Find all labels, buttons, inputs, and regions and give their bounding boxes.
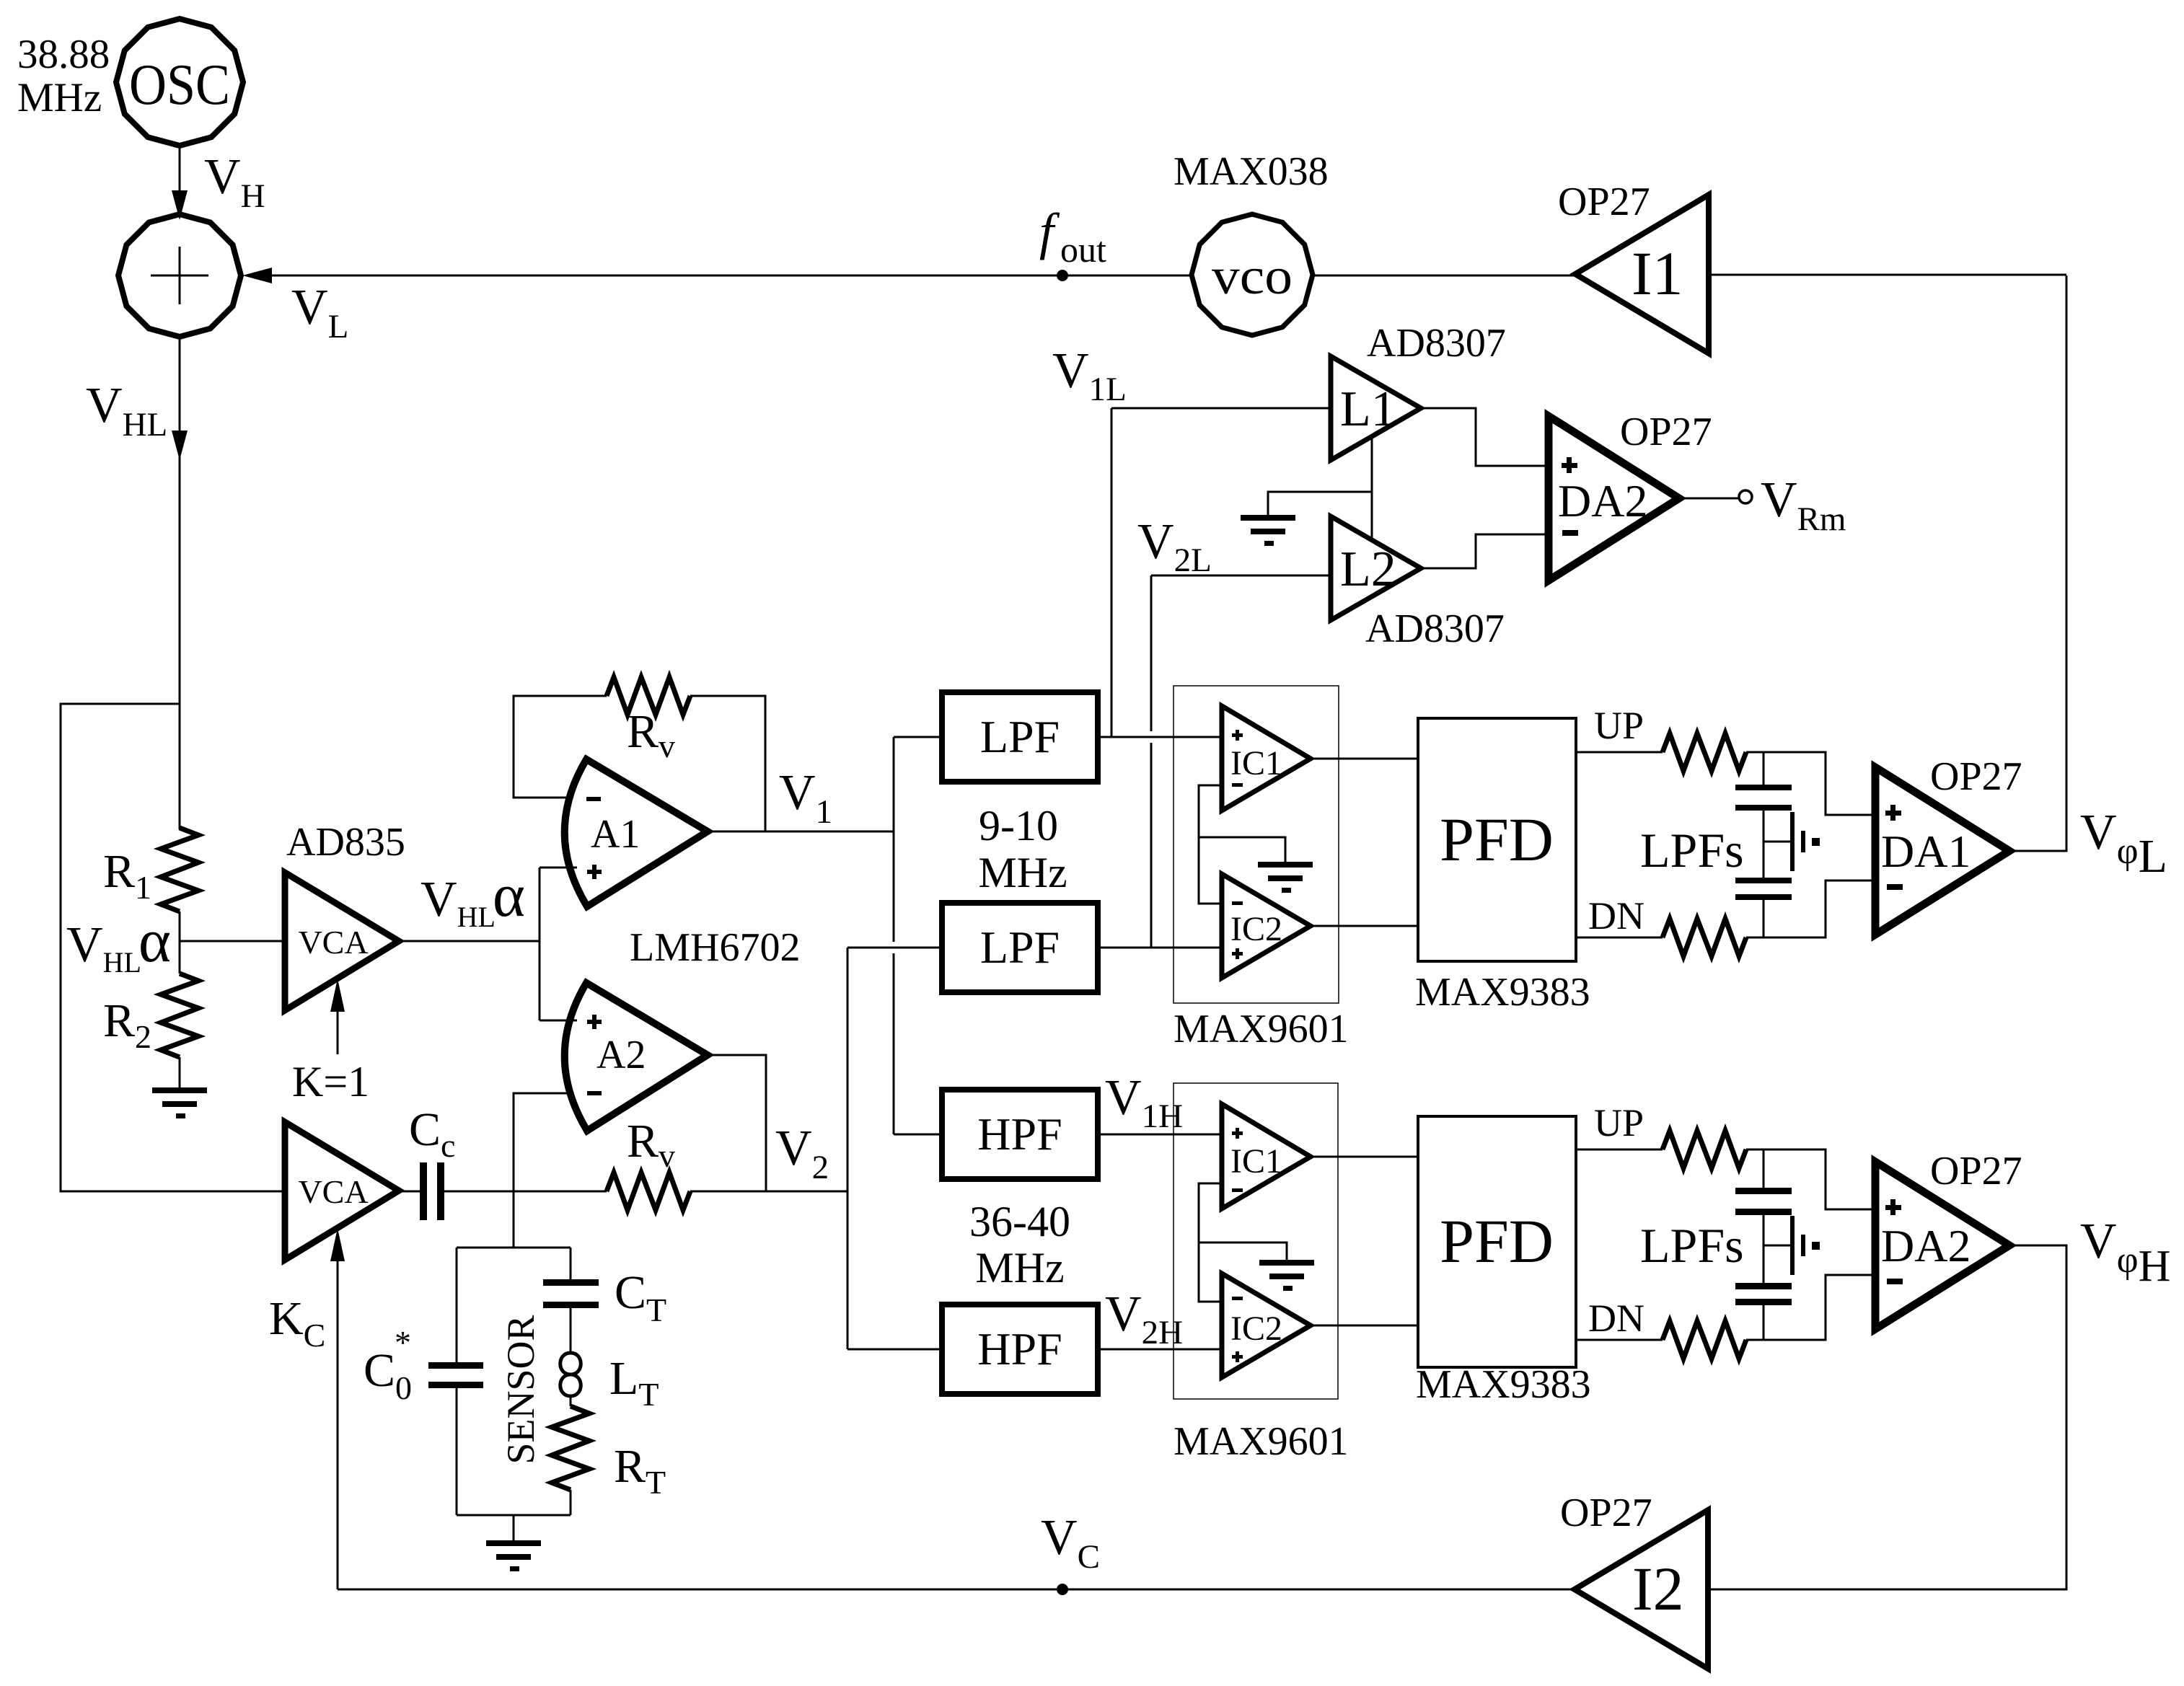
- wire L1 L2 reference: [1371, 438, 1373, 541]
- wire V1L to L1: [1111, 407, 1331, 410]
- capacitor C0*: [428, 1362, 483, 1388]
- svg-text:MAX9383: MAX9383: [1416, 1362, 1591, 1407]
- wire VCO to I1: [1313, 275, 1575, 277]
- wire IC2 output lower: [1311, 1325, 1418, 1327]
- svg-text:out: out: [1060, 229, 1106, 270]
- svg-text:MHz: MHz: [17, 75, 102, 120]
- filter HPF2: [942, 1305, 1098, 1394]
- wire DN upper: [1576, 937, 1663, 939]
- svg-text:UP: UP: [1594, 704, 1644, 747]
- resistor R1: [161, 828, 198, 912]
- svg-text:MHz: MHz: [978, 849, 1067, 896]
- svg-text:OP27: OP27: [1930, 754, 2022, 799]
- filter HPF1: [942, 1090, 1098, 1179]
- wire DN resistor to DA1: [1746, 880, 1875, 937]
- wire UP resistor to DA2: [1746, 1149, 1875, 1209]
- resistor Rv feedback A2: [607, 1173, 690, 1210]
- wire DA2 output: [1709, 1245, 2066, 1589]
- wire VCA2 to Cc: [399, 1191, 420, 1193]
- svg-text:A2: A2: [596, 1033, 646, 1077]
- reference bias lower: [1764, 1216, 1820, 1275]
- arrow VH: [172, 190, 188, 220]
- wire DN lower: [1576, 1339, 1663, 1341]
- wire VC return line: [338, 1589, 1574, 1591]
- svg-text:DA1: DA1: [1881, 826, 1971, 877]
- ground IC upper: [1258, 862, 1313, 893]
- inductor LT: [560, 1353, 581, 1396]
- svg-text:HPF: HPF: [977, 1323, 1062, 1374]
- inverter I1: [1575, 195, 1709, 353]
- wire VL from VCO to summing junction: [270, 275, 1192, 277]
- svg-text:AD835: AD835: [286, 820, 405, 865]
- svg-text:OP27: OP27: [1560, 1491, 1652, 1535]
- svg-text:LMH6702: LMH6702: [630, 925, 800, 970]
- block PFD upper: [1418, 718, 1576, 961]
- wire IC reference upper: [1199, 785, 1285, 904]
- svg-text:UP: UP: [1594, 1101, 1644, 1144]
- resistor DN lower: [1663, 1321, 1746, 1359]
- svg-text:MAX038: MAX038: [1174, 149, 1329, 194]
- filter LPF2: [942, 903, 1098, 992]
- wire R2 to ground: [179, 1057, 181, 1087]
- capacitor chain upper: [1735, 752, 1792, 937]
- wire Cc to Rv2: [444, 1191, 607, 1193]
- wire V2L tap: [1150, 575, 1153, 731]
- sensor loop wiring: [457, 1248, 571, 1540]
- wire A2 inverting input: [514, 1093, 572, 1191]
- comparator IC2 lower: [1222, 1274, 1311, 1377]
- capacitor chain lower: [1735, 1149, 1792, 1340]
- wire A1 output V1: [708, 831, 894, 833]
- wire VHL down to divider: [179, 337, 181, 829]
- ground L1 L2: [1241, 515, 1295, 546]
- oscillator VCO: [1192, 214, 1313, 335]
- arrow K=1 into VCA1: [337, 1009, 339, 1054]
- wire V2 to filters: [847, 948, 849, 1349]
- node fout junction dot: [1057, 270, 1068, 281]
- resistor UP upper: [1663, 733, 1746, 771]
- wire divider tap to VCA1: [179, 912, 181, 974]
- svg-text:LPFs: LPFs: [1640, 823, 1744, 878]
- wire V1L tap: [1111, 408, 1113, 737]
- svg-text:VCA: VCA: [298, 924, 368, 961]
- label 9-10 MHz: [978, 802, 1067, 896]
- svg-text:L1: L1: [1340, 381, 1396, 437]
- svg-text:9-10: 9-10: [979, 802, 1058, 849]
- svg-text:MAX9601: MAX9601: [1174, 1007, 1349, 1051]
- svg-text:OP27: OP27: [1930, 1149, 2022, 1193]
- svg-text:IC1: IC1: [1230, 1142, 1282, 1180]
- wire UP resistor to DA1: [1746, 752, 1875, 815]
- resistor R2: [161, 974, 198, 1057]
- svg-text:SENSOR: SENSOR: [499, 1315, 542, 1464]
- svg-text:L2: L2: [1340, 542, 1396, 597]
- comparator block MAX9601 lower: [1174, 1083, 1338, 1399]
- wire LPF1 output: [1098, 736, 1222, 738]
- label 38.88 MHz: [17, 32, 110, 120]
- svg-text:MHz: MHz: [975, 1244, 1064, 1292]
- svg-text:IC2: IC2: [1230, 1310, 1282, 1348]
- svg-text:A1: A1: [591, 812, 640, 857]
- arrow VL into summing junction: [242, 268, 272, 283]
- wire DN resistor to DA2: [1746, 1275, 1875, 1340]
- node VC junction dot: [1057, 1584, 1068, 1595]
- wire Rv2 to V2 node: [690, 1191, 847, 1193]
- oscillator OSC: [116, 19, 243, 146]
- wire A2 output: [708, 1055, 766, 1191]
- resistor RT: [552, 1406, 589, 1490]
- amplifier VCA1: [285, 873, 399, 1010]
- svg-text:VCA: VCA: [298, 1173, 368, 1210]
- svg-text:LPFs: LPFs: [1640, 1218, 1744, 1273]
- wire IC2 output upper: [1311, 925, 1418, 927]
- arrow KC into VCA2: [337, 1258, 339, 1589]
- wire DA1 output: [2009, 275, 2066, 851]
- wire HPF1 output: [1098, 1134, 1222, 1136]
- svg-text:OP27: OP27: [1620, 410, 1712, 454]
- wire L1 to DA2: [1421, 408, 1549, 466]
- wire UP lower: [1576, 1149, 1663, 1151]
- svg-text:IC1: IC1: [1230, 744, 1282, 782]
- terminal VRm: [1739, 490, 1752, 503]
- wire IC1 output lower: [1311, 1156, 1418, 1158]
- svg-text:AD8307: AD8307: [1367, 321, 1506, 366]
- op-amp DA2 upper: [1549, 416, 1679, 581]
- block PFD lower: [1418, 1116, 1576, 1367]
- resistor Rv feedback A1: [607, 677, 690, 715]
- svg-text:OP27: OP27: [1558, 180, 1650, 224]
- wire A1 inverting input: [514, 696, 607, 798]
- svg-text:IC2: IC2: [1230, 910, 1282, 948]
- arrow VHL: [172, 431, 188, 460]
- capacitor CT: [543, 1279, 599, 1308]
- wire sensor tap: [513, 1191, 515, 1248]
- resistor UP lower: [1663, 1131, 1746, 1168]
- svg-text:HPF: HPF: [977, 1108, 1062, 1160]
- svg-text:I2: I2: [1632, 1554, 1684, 1623]
- svg-text:K=1: K=1: [292, 1058, 369, 1105]
- wire OSC to summing node: [179, 146, 181, 214]
- wire branch to VCA2: [61, 704, 285, 1191]
- amplifier L1: [1331, 356, 1421, 460]
- label 36-40 MHz: [969, 1198, 1070, 1292]
- svg-text:DA2: DA2: [1558, 475, 1647, 526]
- svg-text:DN: DN: [1588, 1297, 1644, 1340]
- svg-text:38.88: 38.88: [17, 32, 110, 77]
- svg-text:LPF: LPF: [980, 922, 1060, 973]
- svg-text:vco: vco: [1212, 247, 1293, 305]
- wire DA2 output to VRm: [1679, 498, 1739, 500]
- wire V1 to filters: [893, 737, 895, 942]
- amplifier VCA2: [285, 1122, 399, 1260]
- svg-text:PFD: PFD: [1440, 805, 1554, 874]
- summing junction: [118, 214, 241, 337]
- svg-text:DA2: DA2: [1881, 1220, 1971, 1271]
- comparator IC2 upper: [1222, 874, 1311, 978]
- op-amp DA2 lower: [1875, 1162, 2009, 1329]
- amplifier L2: [1331, 516, 1421, 620]
- wire HPF2 output: [1098, 1349, 1222, 1351]
- op-amp A1: [565, 759, 708, 906]
- inverter I2: [1575, 1510, 1708, 1669]
- svg-text:LPF: LPF: [980, 711, 1060, 762]
- ground IC lower: [1259, 1260, 1314, 1291]
- wire I1 input from feedback: [1710, 274, 2066, 276]
- svg-text:DN: DN: [1588, 894, 1644, 937]
- comparator IC1 lower: [1222, 1104, 1311, 1209]
- wire IC1 output upper: [1311, 758, 1418, 760]
- ground below R2: [152, 1087, 207, 1118]
- wire V2L to L2: [1151, 575, 1331, 577]
- wire UP upper: [1576, 751, 1663, 754]
- reference bias upper: [1764, 812, 1820, 871]
- wire Rv to A1 output: [690, 696, 765, 831]
- wire L2 to DA2: [1421, 534, 1549, 568]
- ground below sensor: [486, 1540, 541, 1571]
- svg-text:MAX9383: MAX9383: [1415, 970, 1590, 1015]
- svg-text:PFD: PFD: [1440, 1206, 1554, 1276]
- capacitor Cc: [420, 1162, 444, 1220]
- svg-text:MAX9601: MAX9601: [1174, 1419, 1349, 1464]
- filter LPF1: [942, 692, 1098, 782]
- op-amp A2: [565, 983, 708, 1131]
- wire IC reference lower: [1199, 1183, 1287, 1302]
- svg-text:OSC: OSC: [129, 53, 230, 117]
- svg-text:I1: I1: [1632, 239, 1683, 308]
- resistor DN upper: [1663, 919, 1746, 956]
- wire VCA1 output to A1/A2 inputs: [399, 940, 540, 943]
- svg-text:36-40: 36-40: [969, 1198, 1070, 1245]
- op-amp DA1: [1875, 767, 2009, 935]
- wire LPF2 output: [1098, 947, 1222, 949]
- comparator block MAX9601 upper: [1174, 686, 1339, 1003]
- svg-text:AD8307: AD8307: [1365, 606, 1505, 651]
- comparator IC1 upper: [1222, 706, 1311, 811]
